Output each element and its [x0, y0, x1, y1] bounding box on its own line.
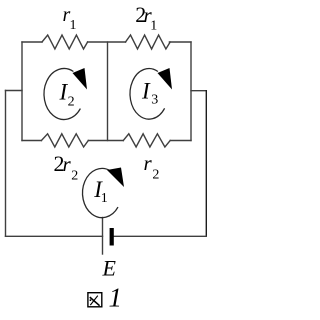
wire bottom-left segment — [22, 140, 41, 142]
svg-text:r: r — [144, 151, 153, 175]
resistor 2r1 — [126, 35, 171, 49]
label I3 — [141, 78, 158, 107]
wire bottom-right segment — [170, 140, 191, 142]
arrowhead I1 — [107, 168, 124, 188]
resistor r2 — [123, 134, 170, 147]
wire right outer vertical — [205, 91, 207, 237]
wire bottom horizontal left of battery — [6, 235, 103, 237]
wire left outer vertical — [5, 91, 7, 237]
label 2r1 — [135, 2, 157, 34]
wire middle vertical — [107, 42, 109, 141]
svg-text:2: 2 — [68, 95, 75, 110]
wire bottom horizontal right of battery — [114, 235, 207, 237]
resistor 2r2 — [41, 134, 88, 147]
wire bottom-middle segment — [88, 140, 123, 142]
wire left inner vertical — [21, 42, 23, 141]
svg-text:E: E — [102, 256, 117, 281]
label I2 — [59, 80, 75, 110]
svg-text:2: 2 — [152, 168, 159, 183]
label r1 — [63, 4, 77, 33]
svg-text:r: r — [63, 152, 72, 176]
wire top-middle segment — [88, 41, 126, 43]
svg-text:1: 1 — [150, 19, 157, 34]
svg-text:2: 2 — [71, 168, 78, 183]
wire top-right segment — [169, 41, 191, 43]
label 2r2 — [54, 151, 79, 183]
svg-text:3: 3 — [151, 93, 158, 108]
label figure kanji zu (drawn box glyph) — [88, 293, 102, 307]
resistor r1 — [42, 35, 88, 49]
svg-text:1: 1 — [70, 18, 77, 33]
arrowhead I2 — [73, 68, 88, 90]
label r2 — [144, 151, 160, 183]
current loop arc I1 — [83, 168, 118, 217]
battery E short thick plate — [110, 228, 114, 246]
label I1 — [93, 177, 108, 206]
svg-text:1: 1 — [109, 283, 123, 313]
wire left branch — [6, 90, 23, 92]
arrowhead I3 — [158, 68, 173, 90]
current loop arc I3 — [130, 69, 165, 120]
wire right inner vertical — [190, 42, 192, 141]
wire right branch — [191, 90, 206, 92]
current loop arc I2 — [44, 69, 80, 120]
wire top-left segment — [22, 41, 42, 43]
battery E long plate — [102, 218, 104, 255]
svg-text:I: I — [141, 78, 151, 103]
svg-text:1: 1 — [101, 191, 108, 206]
